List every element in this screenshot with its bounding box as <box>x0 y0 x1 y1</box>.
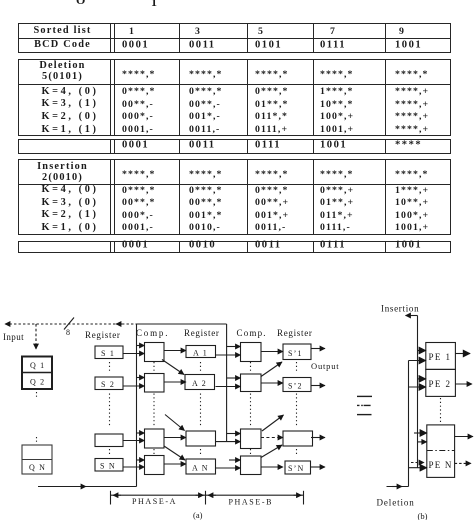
svg-text:PHASE-B: PHASE-B <box>229 498 274 507</box>
wire: bottom feedback horizontal <box>38 486 137 488</box>
svg-text:A 1: A 1 <box>193 349 208 358</box>
PE1 input taps <box>418 350 426 352</box>
final sorted list row <box>0 0 474 1</box>
register S1 <box>95 346 123 359</box>
register S'N <box>285 461 311 474</box>
insertion block label <box>0 0 474 1</box>
svg-text:PE N: PE N <box>429 460 453 470</box>
column continuation dots <box>110 362 297 455</box>
wire: feedback bus vertical (phase A) <box>136 324 138 487</box>
PEN output <box>455 436 473 438</box>
wire: dashed drop from input bus to queue Q <box>35 324 37 349</box>
svg-text:S’1: S’1 <box>288 349 303 358</box>
wire: insertion bus vertical (phase B) <box>226 324 228 442</box>
queue register Q1/Q2 (bold box) <box>22 357 52 390</box>
svg-text:8: 8 <box>66 328 71 337</box>
svg-text:Register: Register <box>277 328 313 338</box>
svg-text:A 2: A 2 <box>192 379 207 388</box>
svg-text:Register: Register <box>85 330 121 340</box>
svg-text:(a): (a) <box>193 510 203 520</box>
wire: deletion input at bottom <box>387 486 409 488</box>
table header table frame <box>0 0 1 1</box>
register A2 <box>185 375 215 390</box>
dots between PE2 and PEN <box>440 398 442 423</box>
wires rowN: SN->comp->AN->comp->S'N <box>123 460 325 468</box>
svg-text:S’N: S’N <box>288 464 305 473</box>
svg-text:(b): (b) <box>418 511 428 520</box>
insertion K=3 row <box>0 0 474 1</box>
queue register QN <box>22 445 52 474</box>
arrowhead on input bus near feedback bus <box>116 323 122 325</box>
processing element PE2 <box>426 369 456 396</box>
wire: feedback top horizontal <box>137 323 227 325</box>
comparator phase A row2 <box>145 374 165 393</box>
svg-text:Register: Register <box>184 328 220 338</box>
table insertion block frame <box>0 0 1 1</box>
svg-text:PE 1: PE 1 <box>429 352 452 362</box>
register A1 <box>186 346 216 358</box>
PE2 output <box>455 383 472 385</box>
equivalence symbol between (a) and (b) <box>357 396 372 414</box>
insertion K=1 row <box>0 0 474 1</box>
svg-text:Comp.: Comp. <box>237 328 267 338</box>
cropped caption fragment 2 <box>151 0 157 8</box>
deletion K=3 row <box>0 0 474 1</box>
wires row2: S2->comp->A2->comp->S'2 with bus taps <box>123 378 325 387</box>
PE1 output <box>455 353 470 355</box>
table deletion block frame <box>0 0 1 1</box>
diagonal wire compA1 -> A2 <box>162 360 184 375</box>
svg-text:PE 2: PE 2 <box>429 379 452 389</box>
insertion star header row <box>0 0 474 1</box>
deletion K=4 row <box>0 0 474 1</box>
deletion K=1 row <box>0 0 474 1</box>
wires row1: S1->comp->A1->comp->S'1 with bus taps <box>123 346 325 356</box>
diagonal wire compBN -> S'3 <box>261 445 282 458</box>
svg-text:A N: A N <box>192 464 209 473</box>
table intermediate list row frame <box>0 0 1 1</box>
comparator phase A row1 <box>145 343 165 362</box>
comparator phase B rowN <box>241 456 262 475</box>
diagonal wire (ellipsis) compB3 -> S'2 <box>262 415 284 431</box>
deletion K=2 row <box>0 0 474 1</box>
header row: sorted list 1 3 5 7 9 <box>0 0 474 1</box>
svg-text:Insertion: Insertion <box>381 304 419 314</box>
wire: insertion output (top of bus A) <box>406 315 418 317</box>
PEN dashed output <box>455 462 471 464</box>
register S'1 <box>283 344 311 360</box>
diagonal wire compA3 -> AN <box>164 446 185 460</box>
svg-text:Input: Input <box>3 332 24 342</box>
cropped caption fragment 1 <box>76 0 85 6</box>
insertion K=4 row <box>0 0 474 1</box>
svg-text:Deletion: Deletion <box>377 498 415 508</box>
svg-text:S N: S N <box>100 462 116 471</box>
register S'2 <box>283 378 311 392</box>
deletion block label <box>0 0 474 1</box>
phase A / phase B extent markers <box>111 491 304 505</box>
bus width slash "8" <box>64 318 74 338</box>
comparator phase B row1 <box>241 343 262 362</box>
diagonal wire compB2 -> S'1 <box>261 362 282 377</box>
comparator phase B row3 <box>241 429 262 449</box>
svg-text:Output: Output <box>311 361 339 371</box>
svg-text:S’2: S’2 <box>288 382 303 391</box>
svg-text:S 1: S 1 <box>101 349 115 358</box>
register SN <box>95 459 123 472</box>
diagonal wire (ellipsis) compA2 -> A3 <box>165 415 185 431</box>
register S'3 (blank) <box>283 431 313 446</box>
svg-text:Comp.: Comp. <box>136 328 169 338</box>
processing element PEN <box>427 425 455 478</box>
intermediate sorted list row <box>0 0 474 1</box>
svg-text:Q 2: Q 2 <box>30 378 45 387</box>
deletion star header row <box>0 0 474 1</box>
BCD code row <box>0 0 474 1</box>
register AN <box>186 459 216 474</box>
wire: bus B vertical (deletion side) <box>408 361 410 487</box>
wire: bus A vertical (insertion side) <box>417 316 419 468</box>
register S2 <box>95 377 123 390</box>
insertion K=2 row <box>0 0 474 1</box>
svg-text:Q 1: Q 1 <box>30 361 45 370</box>
processing element PE1 <box>426 343 456 370</box>
comparator phase A rowN <box>145 456 165 475</box>
comparator phase B row2 <box>241 374 262 392</box>
register A3 (blank) <box>186 431 216 446</box>
wires row3 (ellipsis row) <box>123 433 325 442</box>
svg-text:S 2: S 2 <box>101 380 115 389</box>
table final list row frame <box>0 0 1 1</box>
svg-text:PHASE-A: PHASE-A <box>132 497 177 506</box>
PEN dashed input <box>411 462 424 464</box>
svg-text:Q N: Q N <box>29 463 46 472</box>
wire: dashed input bus (top left) <box>5 323 137 325</box>
comparator phase A row3 <box>145 429 165 448</box>
dots below queue <box>36 392 38 443</box>
PE2 input taps <box>418 378 426 380</box>
register S3 (blank) <box>95 434 123 447</box>
PEN input taps <box>414 432 427 434</box>
